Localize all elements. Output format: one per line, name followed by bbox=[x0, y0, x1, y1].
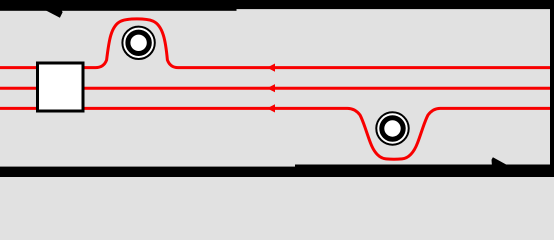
vortex symbol V2 inner ring bbox=[382, 118, 403, 139]
bottom plate thick segment (right, moving right) bbox=[295, 165, 554, 178]
arrowhead on line 3 (points left) bbox=[267, 104, 275, 112]
vortex symbol V1 inner ring bbox=[128, 32, 149, 53]
top plate velocity arrowhead (points left) bbox=[46, 10, 63, 18]
vortex symbol V2 outer ring bbox=[376, 112, 408, 144]
top plate thin segment (right) bbox=[0, 0, 554, 9]
bottom plate velocity arrowhead (points right) bbox=[492, 157, 508, 165]
background field bbox=[0, 0, 554, 177]
top plate thick segment (left, moving left) bbox=[0, 0, 237, 11]
arrowhead on line 2 (points left) bbox=[267, 84, 275, 92]
wire: red field line 1 (top, bumps over upper vortex) bbox=[0, 19, 550, 68]
wire: red field line 3 (bottom, dips under lower vortex) bbox=[0, 108, 550, 159]
vortex symbol V1 outer ring bbox=[122, 27, 154, 59]
component box (white square) bbox=[38, 63, 84, 111]
wire: red field line 2 (middle, straight) bbox=[0, 87, 550, 90]
bottom plate thin segment (left) bbox=[0, 167, 554, 177]
right boundary strip bbox=[550, 0, 554, 177]
arrowhead on line 1 (points left) bbox=[267, 64, 275, 72]
